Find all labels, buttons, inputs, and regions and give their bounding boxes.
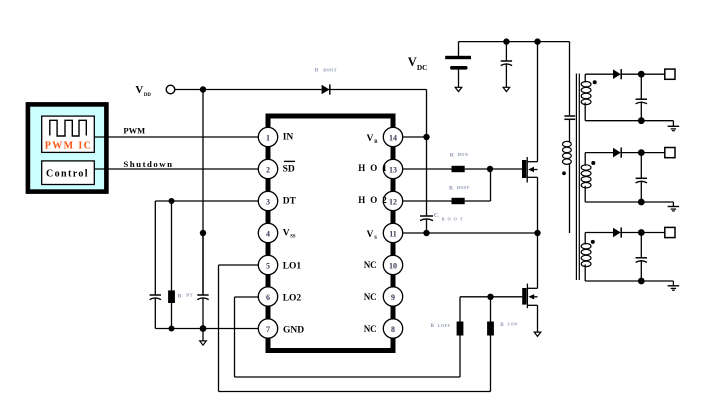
junction Vb / bootstrap diode (423, 134, 429, 140)
svg-text:13: 13 (389, 165, 397, 174)
junction cap bottom 3 (638, 278, 645, 285)
svg-text:1: 1 (266, 133, 270, 142)
junction pin4 VSS tie (200, 230, 206, 236)
svg-text:12: 12 (389, 197, 397, 206)
op-amp/driver IC U1 body (268, 116, 393, 351)
capacitor output filter 2 (636, 153, 647, 202)
ground (open triangle) battery negative (455, 87, 462, 92)
ground (open triangle) filter cap (503, 87, 510, 92)
svg-text:DC: DC (417, 63, 428, 72)
diode D BOOT (322, 84, 330, 94)
wire Q2 source to ground (537, 305, 539, 332)
svg-text:Control: Control (46, 169, 89, 180)
wire half-bridge node to Q2 drain (537, 233, 539, 288)
junction HO1 gate node (487, 166, 493, 172)
inductor primary winding (563, 141, 572, 164)
transistor Q2 (low-side MOSFET) (522, 284, 537, 309)
svg-text:LON: LON (508, 321, 518, 326)
pin 7 circle (258, 319, 277, 338)
wire PWM output to pin 1 (95, 136, 269, 138)
svg-text:8: 8 (391, 325, 395, 334)
node secondary 3 phase dot (591, 240, 595, 244)
wire R_HOFF to gate node riser (465, 200, 491, 202)
node secondary 2 phase dot (591, 161, 595, 165)
svg-text:D: D (315, 69, 319, 74)
wire secondary 1 top (585, 73, 613, 75)
svg-text:NC: NC (364, 292, 377, 302)
svg-text:V: V (283, 228, 290, 238)
svg-text:H O 1: H O 1 (358, 163, 388, 173)
svg-text:5: 5 (266, 261, 270, 270)
connector output 1 (665, 69, 675, 79)
svg-text:R: R (431, 324, 435, 329)
wire pin 6 LO2 (235, 296, 269, 298)
pin 11 circle (383, 223, 402, 242)
wire local ground rail / pin 7 GND (155, 328, 268, 330)
capacitor output filter 3 (636, 233, 647, 282)
wire secondary 2 top (585, 152, 613, 154)
svg-text:PWM IC: PWM IC (45, 141, 93, 152)
connector output 2 (665, 148, 675, 158)
wire primary bottom to half-bridge wire (569, 163, 571, 233)
capacitor DC filter (501, 42, 512, 66)
R HON value label (450, 152, 469, 159)
resistor R_HON body (452, 166, 465, 172)
transistor Q1 (high-side MOSFET) (522, 157, 538, 183)
svg-text:V: V (408, 55, 417, 69)
svg-text:2: 2 (266, 165, 270, 174)
svg-text:NC: NC (364, 324, 377, 334)
diode rectifier D3 (613, 227, 621, 237)
pin 2 circle (258, 159, 277, 178)
wire pin 12 HO2 to R_HOFF (393, 200, 452, 202)
VDD label (135, 84, 151, 98)
svg-text:V: V (367, 134, 374, 144)
wire low-side gate node to Q2 gate (460, 296, 522, 298)
ground (earth) secondary 3 (668, 286, 680, 290)
svg-text:DD: DD (144, 93, 151, 98)
svg-text:C: C (434, 212, 438, 219)
wire pin 11 Vs to half-bridge node (393, 232, 538, 234)
svg-text:BOOT: BOOT (323, 67, 337, 72)
ground (earth) secondary 2 (668, 207, 680, 211)
wire DT cap branch (154, 201, 156, 295)
pin 9 circle (383, 287, 402, 306)
pin 4 circle (258, 223, 277, 242)
pin label Vss (283, 228, 296, 239)
wire DC top rail (459, 41, 570, 43)
wire cap to primary winding (569, 119, 571, 142)
capacitor DC-block (primary series) (564, 116, 575, 119)
PWM IC inner box (42, 116, 95, 152)
svg-text:7: 7 (266, 325, 270, 334)
C BOOT value label (434, 212, 466, 221)
wire LO2 bottom run to R_LOFF (235, 376, 461, 378)
capacitor C_DT (150, 295, 161, 329)
pin 5 circle (258, 255, 277, 274)
transformer core (576, 74, 579, 281)
svg-text:V: V (135, 84, 143, 96)
pin 10 circle (383, 255, 402, 274)
wire secondary 2 bottom (585, 201, 673, 203)
junction output node 1 (638, 71, 645, 78)
junction R_DT bottom on ground rail (169, 326, 175, 332)
svg-text:DT: DT (186, 293, 193, 298)
svg-text:14: 14 (389, 133, 397, 142)
battery V_DC (445, 42, 471, 87)
resistor R_LOFF body (457, 297, 464, 377)
capacitor C_BOOT (420, 216, 433, 233)
pin 1 circle (258, 127, 277, 146)
node primary phase dot (562, 171, 566, 175)
junction half-bridge node (534, 230, 540, 236)
svg-text:R: R (500, 323, 504, 328)
svg-text:PWM: PWM (123, 126, 145, 136)
wire pin 14 Vb (393, 136, 427, 138)
junction rail / Q1 drain (534, 38, 540, 44)
wire rail to DC-block cap (569, 42, 571, 116)
pin 6 circle (258, 287, 277, 306)
junction output node 2 (638, 149, 645, 156)
capacitor output filter 1 (636, 74, 647, 121)
pin 8 circle (383, 319, 402, 338)
svg-text:3: 3 (266, 197, 270, 206)
svg-text:S: S (374, 236, 377, 241)
wire pin 3 DT to RC network (155, 200, 268, 202)
svg-text:LOFF: LOFF (438, 323, 451, 328)
svg-text:SS: SS (290, 234, 296, 239)
diode rectifier D1 (613, 69, 621, 79)
R LON value label (500, 321, 517, 327)
capacitor VDD decoupling (197, 233, 208, 329)
junction cap bottom 2 (638, 199, 645, 206)
svg-text:Shutdown: Shutdown (123, 159, 173, 169)
svg-text:10: 10 (389, 261, 397, 270)
svg-text:LO1: LO1 (283, 261, 302, 271)
resistor R_HOFF body (452, 198, 465, 204)
PWM controller block outer box (28, 104, 107, 191)
connector output 3 (665, 227, 675, 237)
svg-text:SD: SD (283, 164, 295, 174)
wire secondary 3 bottom (585, 280, 673, 282)
junction DT / R_DT top (169, 198, 175, 204)
PWM square wave symbol (50, 120, 87, 136)
VDC label (408, 55, 428, 72)
junction VDD / decoupling branch (200, 86, 206, 92)
R DT value label (178, 293, 194, 300)
R HOFF value label (449, 185, 470, 192)
svg-text:4: 4 (266, 229, 270, 238)
secondary winding 2 (584, 153, 586, 166)
R LOFF value label (431, 323, 451, 329)
secondary winding 3 (584, 233, 586, 245)
junction Q2 gate node (487, 294, 493, 300)
wire riser R_HOFF to HO1 gate node (490, 169, 492, 201)
svg-text:11: 11 (389, 229, 397, 238)
svg-text:V: V (367, 230, 374, 240)
svg-text:DT: DT (283, 196, 297, 206)
VDD terminal (166, 85, 175, 94)
svg-text:LO2: LO2 (283, 293, 302, 303)
wire secondary 1 bottom (585, 120, 673, 122)
wire secondary 3 top (585, 232, 613, 234)
resistor R_DT body (168, 201, 175, 329)
svg-text:NC: NC (364, 260, 377, 270)
wire bootstrap vertical VDD to C_BOOT (426, 90, 428, 217)
pin 3 circle (258, 191, 277, 210)
pin 14 circle (383, 127, 402, 146)
pin label Vb (367, 134, 379, 145)
wire VDD branch down to decoupling cap (202, 90, 204, 296)
svg-text:IN: IN (283, 132, 294, 142)
wire Q1 source to half-bridge node (537, 177, 539, 233)
wire LO1 vertical (218, 265, 220, 392)
svg-text:BOOT: BOOT (442, 217, 466, 222)
svg-text:H O 2: H O 2 (358, 195, 388, 205)
wire LO2 vertical (234, 297, 236, 377)
junction ground rail / cap (200, 325, 207, 332)
svg-text:6: 6 (266, 293, 270, 302)
wire pin 5 LO1 (219, 264, 269, 266)
pin label SD (overbar) (283, 161, 295, 174)
junction output node 3 (638, 229, 645, 236)
wire pin 13 HO1 to R_HON (393, 168, 452, 170)
D BOOT value label (315, 67, 337, 73)
wire Q1 drain to DC rail (537, 42, 539, 162)
ground (earth) secondary 1 (668, 126, 680, 130)
junction rail / filter cap (503, 38, 509, 44)
pin label Vs (367, 230, 378, 241)
wire VDD rail (175, 89, 427, 91)
pin 12 circle (383, 191, 402, 210)
svg-text:GND: GND (283, 325, 304, 335)
svg-text:HOFF: HOFF (457, 185, 470, 190)
wire LO1 bottom run to R_LON (219, 391, 491, 393)
Control inner box (42, 161, 95, 185)
pin 13 circle (383, 159, 402, 178)
junction cap bottom 1 (638, 117, 645, 124)
junction Vs / C_BOOT bottom (423, 230, 429, 236)
diode rectifier D2 (613, 148, 621, 158)
secondary winding 1 (584, 74, 586, 82)
wire R_HON to M1 gate (465, 168, 523, 170)
ground (open triangle) below decoupling cap (200, 341, 207, 346)
ground (open triangle) Q2 source (534, 332, 541, 337)
node secondary 1 phase dot (593, 80, 597, 84)
resistor R_LON body (487, 297, 494, 392)
svg-text:HON: HON (458, 152, 469, 157)
svg-text:9: 9 (391, 293, 395, 302)
wire Shutdown to pin 2 (95, 168, 269, 170)
